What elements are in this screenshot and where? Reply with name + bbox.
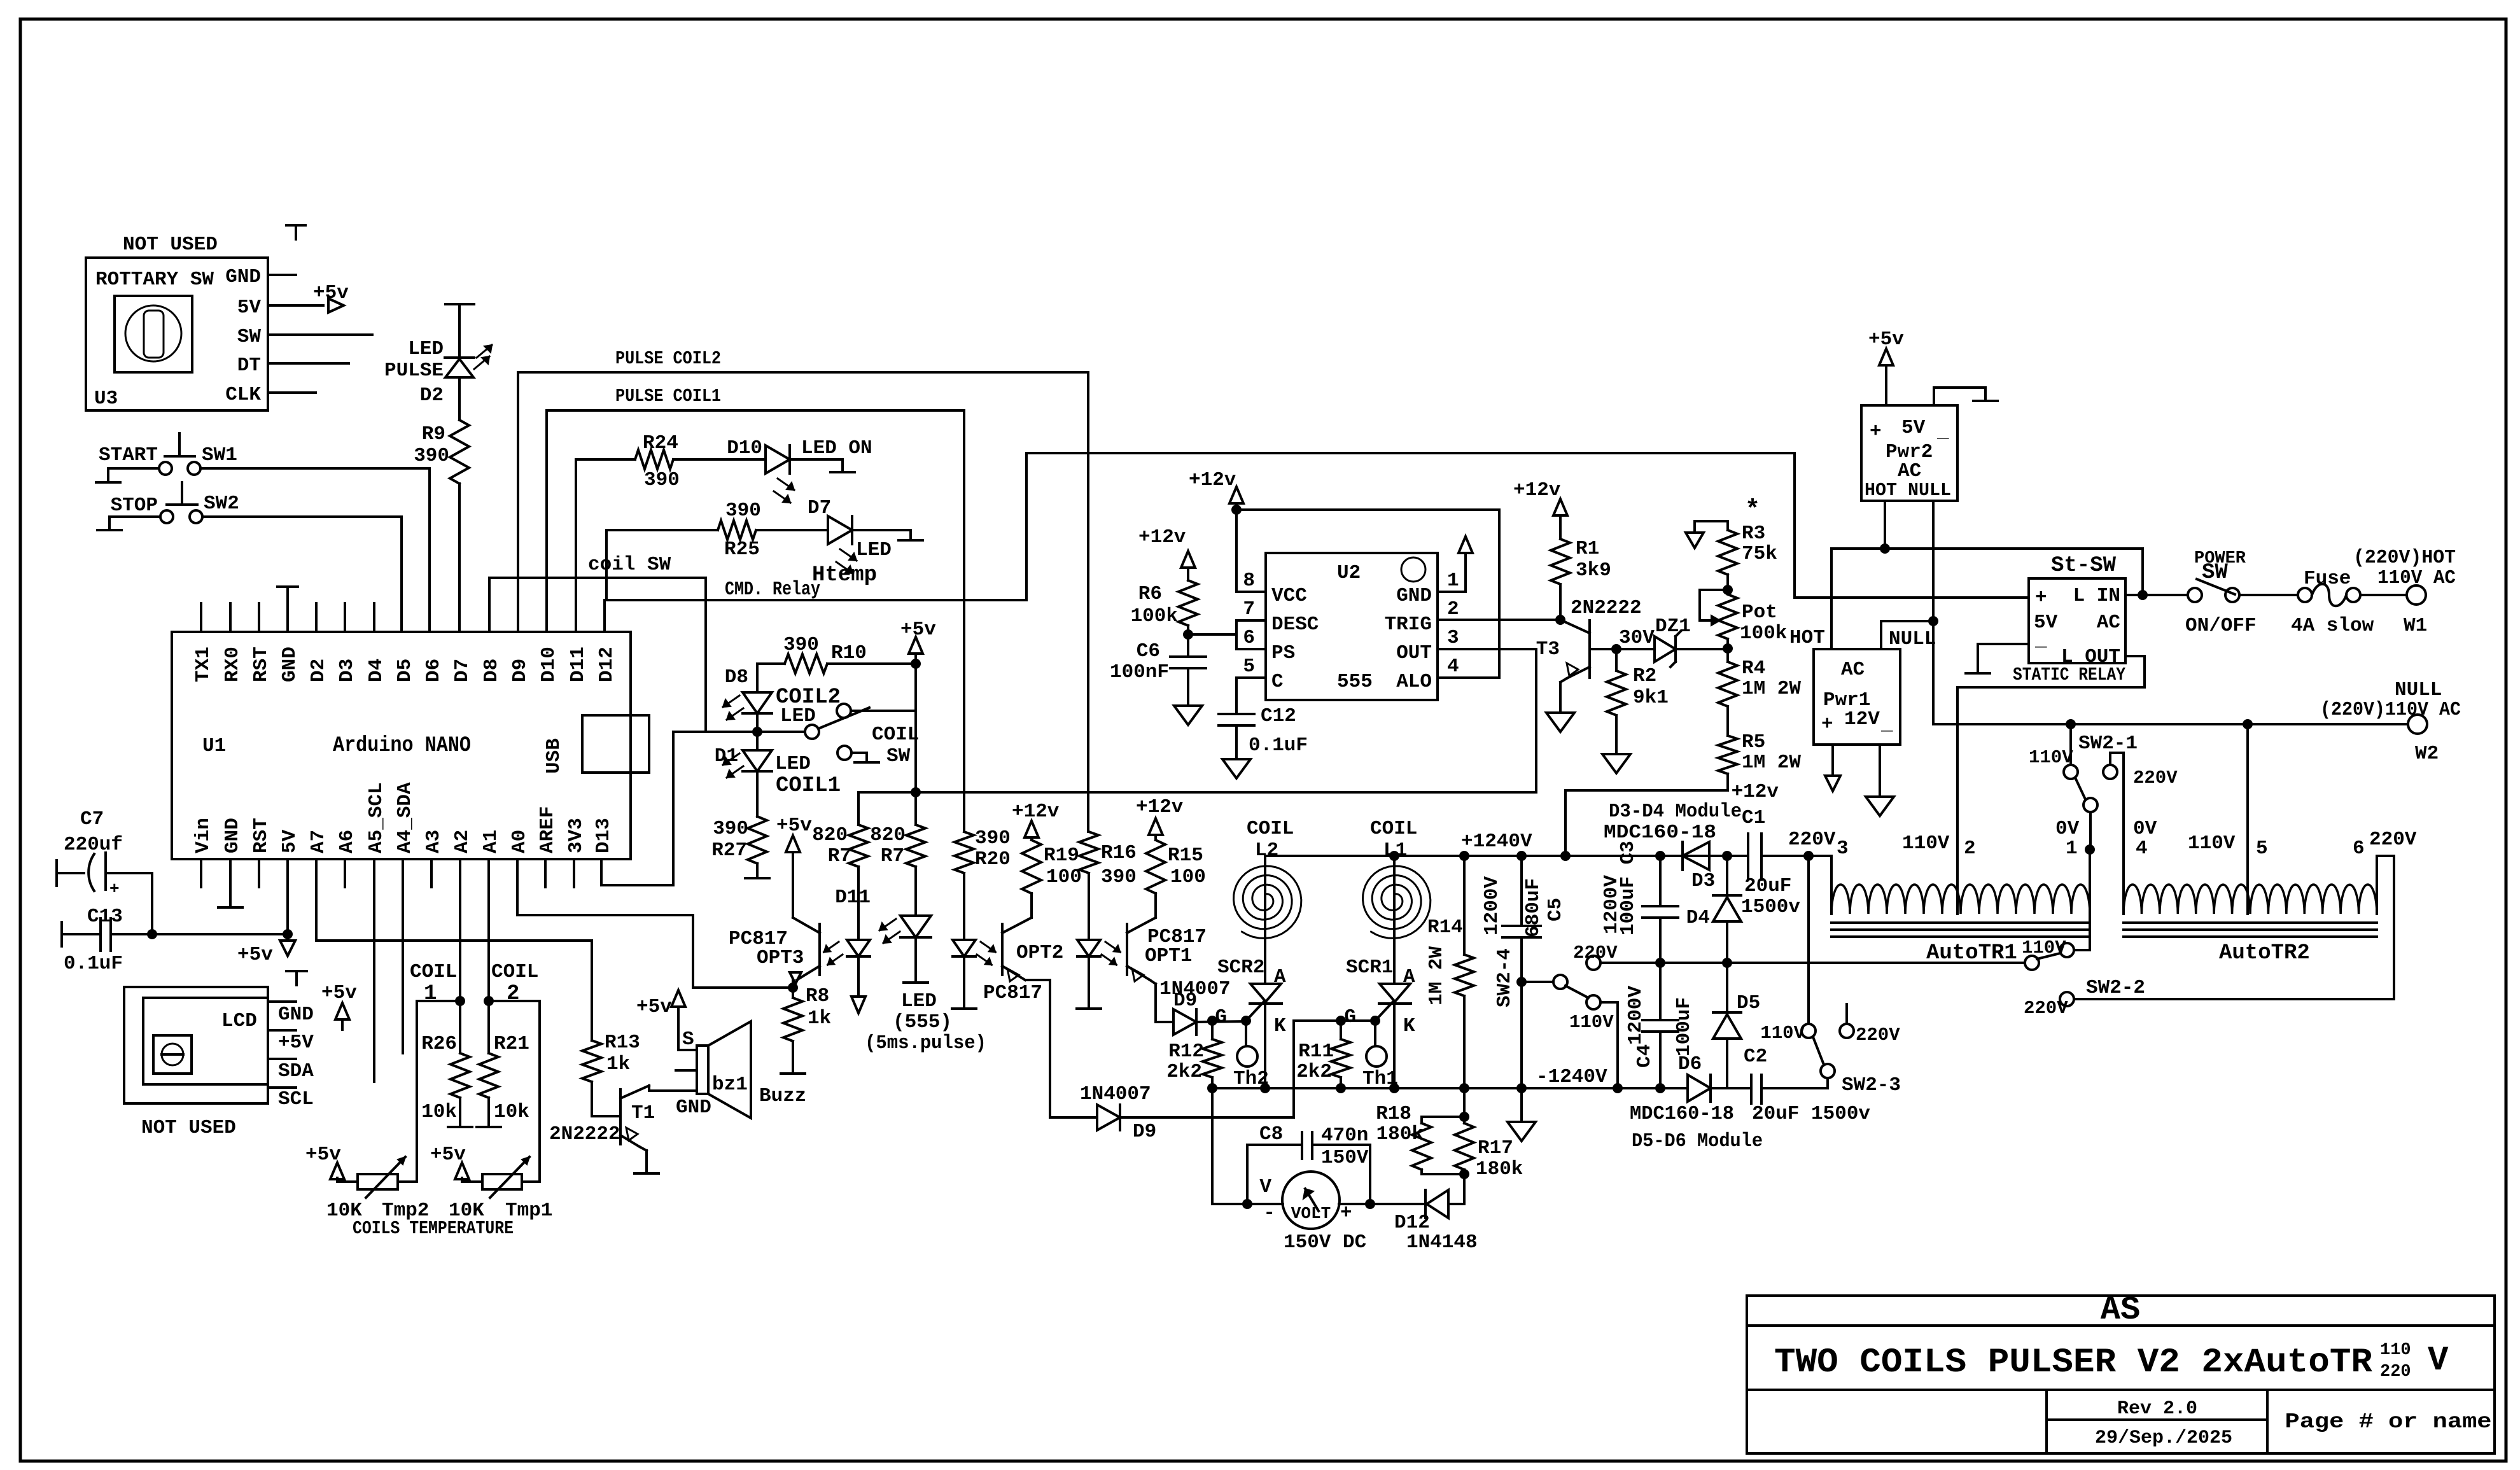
- pin 3: [1447, 627, 1459, 649]
- label - (Pwr1): [1880, 713, 1893, 736]
- node D4 top: [1722, 851, 1732, 861]
- label K (SCR1): [1403, 1015, 1415, 1037]
- svg-text:D9: D9: [509, 659, 531, 682]
- svg-text:D8: D8: [480, 659, 503, 682]
- label 4 (TR2): [2136, 837, 2148, 860]
- label 150V (C8): [1321, 1147, 1369, 1169]
- svg-text:R15: R15: [1168, 844, 1203, 867]
- label 820 (R7b): [870, 824, 906, 846]
- label 100uF (C4): [1673, 997, 1695, 1056]
- svg-text:GND: GND: [278, 1004, 314, 1026]
- ground (C12): [1222, 759, 1250, 778]
- svg-text:COIL: COIL: [410, 961, 457, 983]
- label LED (D2): [408, 338, 444, 360]
- wire PULSE COIL2: [518, 372, 1088, 832]
- wire fuse to W1: [2360, 594, 2407, 596]
- U3 pin CLK label: [225, 384, 261, 406]
- LED D11: [879, 916, 931, 943]
- node coilSW/D8/D1: [752, 727, 762, 737]
- label C8: [1259, 1123, 1283, 1145]
- label 5V (St-SW): [2034, 612, 2058, 634]
- switch SW2-4: [1522, 956, 1600, 1009]
- label pin GND (U1 bottom): [221, 818, 244, 853]
- label U3: [94, 388, 118, 410]
- label R3: [1742, 522, 1765, 545]
- svg-text:STATIC RELAY: STATIC RELAY: [2013, 664, 2125, 685]
- svg-text:0.1uF: 0.1uF: [64, 953, 123, 975]
- node T3 base/R2: [1611, 644, 1621, 654]
- svg-text:A6: A6: [336, 830, 358, 853]
- transformer AutoTR2 core: [2124, 923, 2377, 937]
- svg-text:D4: D4: [1686, 907, 1710, 929]
- svg-text:SW2-2: SW2-2: [2086, 977, 2145, 999]
- wire U3 DT: [268, 362, 349, 365]
- svg-text:A: A: [1403, 966, 1415, 988]
- potentiometer Pot: [1700, 590, 1737, 639]
- arrow down (OPT3 LED): [851, 997, 865, 1013]
- svg-text:D6: D6: [1678, 1053, 1702, 1075]
- svg-text:OPT3: OPT3: [757, 947, 804, 969]
- label 3k9 (R1): [1576, 559, 1611, 582]
- svg-text:390: 390: [1101, 866, 1137, 888]
- title text V: [2428, 1341, 2449, 1380]
- svg-text:R3: R3: [1742, 522, 1765, 545]
- svg-text:A4_SDA: A4_SDA: [394, 782, 416, 853]
- node C8 right: [1365, 1199, 1375, 1209]
- switch SW1 START: [159, 433, 200, 475]
- svg-text:RST: RST: [250, 818, 272, 853]
- svg-text:+12v: +12v: [1136, 796, 1184, 818]
- label NOT USED (LCD): [141, 1117, 236, 1139]
- label 1N4148: [1406, 1231, 1478, 1254]
- svg-text:100: 100: [1170, 866, 1206, 888]
- svg-text:5V: 5V: [237, 297, 262, 319]
- label AC (Pwr2): [1898, 460, 1921, 482]
- svg-text:R26: R26: [421, 1033, 457, 1055]
- +5v arrow (Tmp1): [430, 1144, 469, 1179]
- svg-text:5V: 5V: [1901, 417, 1926, 439]
- wire D11 cathode: [914, 938, 917, 982]
- label R17: [1478, 1137, 1513, 1159]
- transistor OPT2: [1002, 918, 1032, 981]
- label ON/OFF: [2185, 615, 2257, 637]
- label 390 (R27): [713, 818, 748, 840]
- terminal bar (D2 top): [445, 303, 474, 305]
- label R5: [1742, 731, 1765, 753]
- label D11: [835, 886, 871, 909]
- svg-text:C5: C5: [1544, 898, 1567, 921]
- resistor R15: [1146, 840, 1165, 893]
- label 2N2222 (T1): [549, 1123, 620, 1145]
- transformer AutoTR2 winding: [2124, 856, 2394, 999]
- label SCR2: [1217, 956, 1264, 979]
- svg-text:LED: LED: [901, 990, 937, 1012]
- svg-text:30V: 30V: [1619, 627, 1655, 649]
- svg-text:2k2: 2k2: [1166, 1061, 1202, 1083]
- svg-text:220V: 220V: [2133, 767, 2178, 788]
- label D3-D4 Module: [1609, 801, 1742, 823]
- svg-text:R6: R6: [1138, 583, 1162, 605]
- node SCR1 gate: [1336, 1016, 1380, 1026]
- label PC817 (OPT2): [983, 982, 1042, 1004]
- label 100k (Pot): [1740, 622, 1787, 645]
- resistor R13: [582, 1040, 601, 1082]
- svg-text:110V: 110V: [2022, 937, 2066, 958]
- svg-text:+12v: +12v: [1138, 526, 1186, 549]
- potentiometer Tmp2: [337, 1157, 405, 1198]
- svg-text:+: +: [1870, 421, 1882, 443]
- svg-text:D2: D2: [307, 659, 330, 682]
- label NULL (Pwr1): [1889, 628, 1936, 650]
- svg-text:6: 6: [1243, 627, 1255, 649]
- node R17R18 bottom: [1459, 1169, 1469, 1179]
- wire +5v column: [914, 664, 917, 792]
- svg-text:R27: R27: [711, 839, 747, 862]
- wire OUT net: [858, 791, 1536, 794]
- svg-text:R14: R14: [1427, 916, 1463, 939]
- wire SW2-1 220V to TR2: [2110, 753, 2124, 914]
- label +12v (Pwr1): [1732, 781, 1779, 803]
- svg-text:AutoTR2: AutoTR2: [2219, 941, 2310, 965]
- label STATIC RELAY: [2013, 664, 2125, 685]
- svg-text:+5v: +5v: [430, 1144, 466, 1166]
- node R6/C6: [1183, 629, 1193, 640]
- label U2: [1337, 562, 1361, 584]
- svg-text:A3: A3: [423, 830, 445, 853]
- wire C5 to -1240V: [1520, 982, 1523, 1088]
- label 110V (SW2-3): [1760, 1023, 1805, 1044]
- svg-text:+12v: +12v: [1513, 479, 1561, 501]
- wire R18 bracket top: [1422, 1116, 1464, 1118]
- svg-text:SDA: SDA: [278, 1060, 314, 1082]
- psu Pwr1 box: [1814, 649, 1900, 745]
- pin 4: [1447, 655, 1459, 678]
- label St-SW: [2051, 554, 2117, 578]
- lcd box: [124, 987, 268, 1103]
- ground (R21): [477, 1126, 501, 1128]
- svg-text:+12v: +12v: [1012, 801, 1060, 823]
- label 10K (Tmp2): [326, 1200, 362, 1222]
- svg-text:R10: R10: [831, 642, 867, 664]
- capacitor C4: [1642, 963, 1678, 1088]
- ground (C6): [1174, 706, 1202, 725]
- svg-text:1: 1: [1447, 570, 1459, 592]
- svg-text:ROTTARY SW: ROTTARY SW: [95, 269, 214, 291]
- wire C13 bus: [152, 933, 288, 935]
- svg-text:820: 820: [812, 824, 848, 846]
- diode D12: [1425, 1190, 1464, 1218]
- svg-text:R11: R11: [1298, 1040, 1334, 1063]
- label MDC160-18 (top): [1604, 822, 1716, 844]
- svg-text:NULL: NULL: [2395, 679, 2442, 701]
- resistor R24: [635, 450, 673, 469]
- svg-text:NOT USED: NOT USED: [141, 1117, 236, 1139]
- svg-text:100k: 100k: [1740, 622, 1787, 645]
- label 12V (Pwr1): [1844, 708, 1880, 731]
- ground (D7): [899, 539, 923, 542]
- label GND (buzzer): [676, 1096, 711, 1119]
- +12v arrow (R15): [1136, 796, 1184, 840]
- node C8 left: [1242, 1199, 1252, 1209]
- svg-text:1: 1: [424, 982, 437, 1006]
- wire D10 to gnd: [790, 459, 843, 472]
- label 1M 2W (R14): [1425, 946, 1448, 1005]
- wire U1 GND bottom: [229, 859, 232, 907]
- label 150V DC: [1284, 1231, 1366, 1254]
- wire Pwr2 minus: [1934, 388, 1985, 405]
- pin 8: [1243, 570, 1255, 592]
- svg-text:1M 2W: 1M 2W: [1425, 946, 1448, 1005]
- label 680uF (C5): [1522, 878, 1544, 937]
- title text Rev: [2117, 1398, 2197, 1420]
- thermal Th1: [1366, 1021, 1387, 1067]
- label 180k (R18): [1376, 1123, 1424, 1145]
- svg-text:TX1: TX1: [192, 647, 214, 682]
- diode D4: [1713, 856, 1741, 963]
- wire OPT2 emitter: [1025, 980, 1097, 1117]
- label 2N2222 (T3): [1571, 597, 1642, 619]
- svg-text:R7: R7: [881, 845, 904, 867]
- svg-text:+5v: +5v: [636, 996, 672, 1018]
- wire U3 GND: [268, 274, 296, 276]
- terminal W1: [2407, 585, 2426, 605]
- wire R9 to D7 pin: [458, 484, 461, 632]
- label Th2: [1233, 1068, 1269, 1090]
- node L1 top: [1389, 851, 1399, 861]
- label LED (D1): [775, 753, 811, 775]
- svg-text:220uf: 220uf: [64, 834, 123, 856]
- svg-text:R13: R13: [605, 1032, 640, 1054]
- wire coil SW: [489, 578, 706, 732]
- label D6: [1678, 1053, 1702, 1075]
- svg-text:SW: SW: [2202, 561, 2228, 585]
- svg-text:+: +: [2035, 587, 2047, 609]
- resistor R9: [450, 420, 469, 484]
- label AC (Pwr1): [1841, 659, 1865, 681]
- label R2: [1633, 665, 1656, 687]
- svg-text:2N2222: 2N2222: [1571, 597, 1642, 619]
- wire Tmp1 riser: [489, 1001, 540, 1182]
- svg-text:+5v: +5v: [321, 982, 357, 1004]
- label 1M 2W (R5): [1742, 752, 1801, 774]
- svg-text:LED: LED: [408, 338, 444, 360]
- svg-text:D3: D3: [336, 659, 358, 682]
- wire D2 anode: [458, 304, 461, 358]
- label USB: [543, 738, 565, 774]
- label 1 (TR1): [2066, 837, 2078, 860]
- label T1: [631, 1102, 655, 1124]
- svg-text:TWO COILS PULSER V2 2xAutoTR: TWO COILS PULSER V2 2xAutoTR: [1774, 1343, 2373, 1382]
- svg-text:2: 2: [1964, 837, 1976, 860]
- label 100k (R6): [1131, 605, 1178, 627]
- node L IN: [2138, 590, 2148, 600]
- svg-text:ALO: ALO: [1396, 671, 1432, 693]
- svg-text:COILS TEMPERATURE: COILS TEMPERATURE: [353, 1218, 514, 1239]
- svg-text:CMD. Relay: CMD. Relay: [725, 578, 820, 601]
- svg-text:R17: R17: [1478, 1137, 1513, 1159]
- label pin A2 (U1 bottom): [451, 830, 473, 853]
- wire Pwr2 HOT pin: [1884, 501, 1886, 549]
- pin stub RST: [258, 603, 260, 632]
- label SW1: [202, 444, 237, 466]
- ground (U1 GND bottom): [218, 906, 242, 909]
- label Pwr2: [1886, 441, 1933, 463]
- thyristor SCR2: [1246, 856, 1282, 1021]
- svg-text:D5: D5: [1737, 992, 1760, 1014]
- wire T3 base: [1590, 648, 1616, 650]
- svg-text:390: 390: [783, 634, 819, 656]
- svg-text:SW: SW: [237, 326, 262, 348]
- label (220V)HOT: [2353, 547, 2456, 569]
- svg-text:R4: R4: [1742, 657, 1765, 680]
- transistor OPT1: [1127, 918, 1156, 981]
- LED OPT1 internal: [1077, 940, 1120, 965]
- label C6: [1137, 640, 1160, 662]
- label pin GND (U1 top): [279, 647, 301, 682]
- svg-text:220V: 220V: [1788, 829, 1836, 851]
- arrow down (+12v out): [1825, 776, 1840, 791]
- pin stub RX0: [229, 603, 232, 632]
- label L1: [1383, 839, 1407, 862]
- +12v arrow (R1): [1513, 479, 1567, 539]
- svg-text:220V: 220V: [2024, 998, 2068, 1019]
- svg-text:220V: 220V: [1856, 1025, 1900, 1046]
- node A2/Tmp2: [455, 996, 465, 1006]
- wire TRIG net: [1438, 619, 1560, 621]
- pin stub AREF: [544, 859, 547, 887]
- svg-text:D3-D4 Module: D3-D4 Module: [1609, 801, 1742, 823]
- label Fuse: [2304, 568, 2351, 590]
- pin stub D3: [344, 603, 346, 632]
- label 0.1uF (C13): [64, 953, 123, 975]
- wire R17 to D12: [1463, 1174, 1466, 1204]
- label 2k2 (R12): [1166, 1061, 1202, 1083]
- label COIL (1): [410, 961, 457, 983]
- label + (Pwr2): [1870, 421, 1882, 443]
- capacitor C6: [1170, 626, 1206, 705]
- mcu U1 box: [172, 632, 631, 859]
- svg-text:110V: 110V: [1902, 832, 1950, 855]
- node R14 top: [1459, 851, 1469, 861]
- lcd pin GND: [268, 1002, 314, 1026]
- svg-text:SW2: SW2: [204, 493, 239, 515]
- label V (meter): [1259, 1176, 1271, 1198]
- +5v arrow (mid): [321, 982, 357, 1030]
- svg-text:V: V: [1259, 1176, 1271, 1198]
- wire L OUT: [1957, 656, 2145, 687]
- label (5ms.pulse): [865, 1032, 986, 1054]
- label Pot: [1742, 601, 1777, 624]
- label D3: [1691, 870, 1715, 892]
- +5v arrow (U3): [313, 282, 349, 312]
- svg-text:R19: R19: [1044, 844, 1079, 867]
- label Tmp2: [382, 1200, 429, 1222]
- ground (T1): [634, 1172, 659, 1175]
- pin stub 3V3: [573, 859, 575, 887]
- pin stub A3: [430, 859, 433, 887]
- label MDC160-18 (bottom): [1630, 1103, 1734, 1125]
- pin 2: [1447, 598, 1459, 620]
- label pin AREF (U1 bottom): [536, 806, 559, 853]
- node R5 drop: [1560, 851, 1571, 861]
- svg-text:D12: D12: [596, 647, 618, 682]
- label R7a: [828, 845, 851, 867]
- label pin A5_SCL (U1 bottom): [365, 782, 388, 853]
- label PS: [1271, 642, 1295, 664]
- label R25: [724, 538, 760, 561]
- label A (SCR1): [1403, 966, 1415, 988]
- svg-text:+: +: [1340, 1202, 1352, 1224]
- label LED (D7): [856, 539, 892, 561]
- label 1200V (C4): [1625, 986, 1647, 1045]
- label R13: [605, 1032, 640, 1054]
- svg-text:D1: D1: [715, 745, 738, 767]
- wire OPT2 LED cathode: [963, 956, 965, 1008]
- pin stub A5_SCL: [373, 859, 375, 1082]
- svg-text:R12: R12: [1168, 1040, 1204, 1063]
- label POWER: [2194, 549, 2246, 568]
- svg-text:STOP: STOP: [111, 494, 158, 517]
- label 110V (TR2): [2188, 832, 2236, 855]
- wire C5 gnd stem: [1520, 1088, 1523, 1121]
- svg-text:1200V: 1200V: [1625, 986, 1647, 1045]
- wire T1 emitter: [640, 1147, 647, 1173]
- svg-text:AC: AC: [1841, 659, 1865, 681]
- label 10k (R26): [421, 1101, 457, 1123]
- ground (T3): [1546, 713, 1574, 732]
- node 5V/C13: [283, 929, 293, 939]
- transistor T3: [1560, 620, 1590, 678]
- node VCC: [1231, 505, 1242, 515]
- +5v arrow (R10): [900, 619, 936, 664]
- capacitor C5: [1502, 856, 1541, 982]
- node C5 top: [1516, 851, 1527, 861]
- svg-text:C1: C1: [1742, 807, 1765, 829]
- svg-text:R1: R1: [1576, 538, 1599, 560]
- node R17R18 top: [1459, 1112, 1469, 1122]
- svg-text:D5: D5: [394, 659, 416, 682]
- node SW2-1 tap: [2066, 719, 2076, 729]
- svg-text:29/Sep./2025: 29/Sep./2025: [2095, 1427, 2232, 1449]
- svg-text:START: START: [99, 444, 158, 466]
- wire TR1 tap2 to L OUT: [1956, 687, 1959, 914]
- wire D8 cathode: [756, 713, 759, 732]
- label T3: [1536, 638, 1560, 661]
- svg-text:TRIG: TRIG: [1385, 613, 1432, 636]
- svg-text:*: *: [1745, 496, 1760, 525]
- label ROTTARY SW: [95, 269, 214, 291]
- svg-text:1N4007: 1N4007: [1080, 1083, 1151, 1105]
- resistor R11: [1331, 1021, 1350, 1088]
- ground (D11): [904, 981, 928, 984]
- wire SW2 to D5: [202, 517, 402, 632]
- label PC817 (OPT1): [1147, 926, 1207, 948]
- svg-text:1M 2W: 1M 2W: [1742, 752, 1801, 774]
- svg-text:8: 8: [1243, 570, 1255, 592]
- label 100uF C3: [1617, 841, 1639, 935]
- svg-text:V: V: [2428, 1341, 2449, 1380]
- svg-text:C7: C7: [80, 808, 104, 830]
- label SW2-1: [2078, 732, 2138, 755]
- wire StSW minus gnd: [1978, 644, 2029, 673]
- svg-text:+: +: [1821, 713, 1833, 736]
- pin stub A4_SDA: [402, 859, 404, 1053]
- svg-text:OUT: OUT: [1396, 642, 1432, 664]
- svg-text:-: -: [1263, 1202, 1275, 1224]
- svg-text:SCL: SCL: [278, 1088, 314, 1110]
- wire COILSW common stub: [851, 710, 916, 712]
- label C (U2): [1271, 671, 1284, 693]
